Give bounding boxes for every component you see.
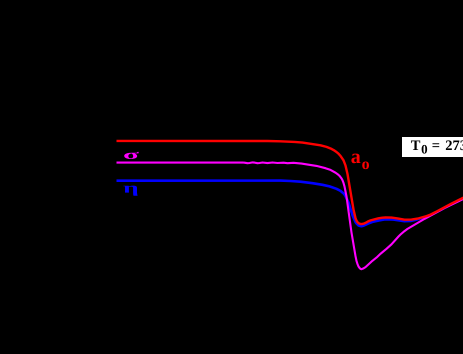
curve a0 (red) [117, 141, 463, 224]
curve eta (blue) [117, 181, 463, 227]
svg-text:T0=273 K: T0=273 K [411, 138, 463, 157]
label eta (blue) [124, 186, 138, 196]
annotation box T0 (white) [402, 137, 463, 157]
label sigma (magenta) [124, 152, 139, 159]
curve sigma (magenta) [117, 162, 463, 269]
